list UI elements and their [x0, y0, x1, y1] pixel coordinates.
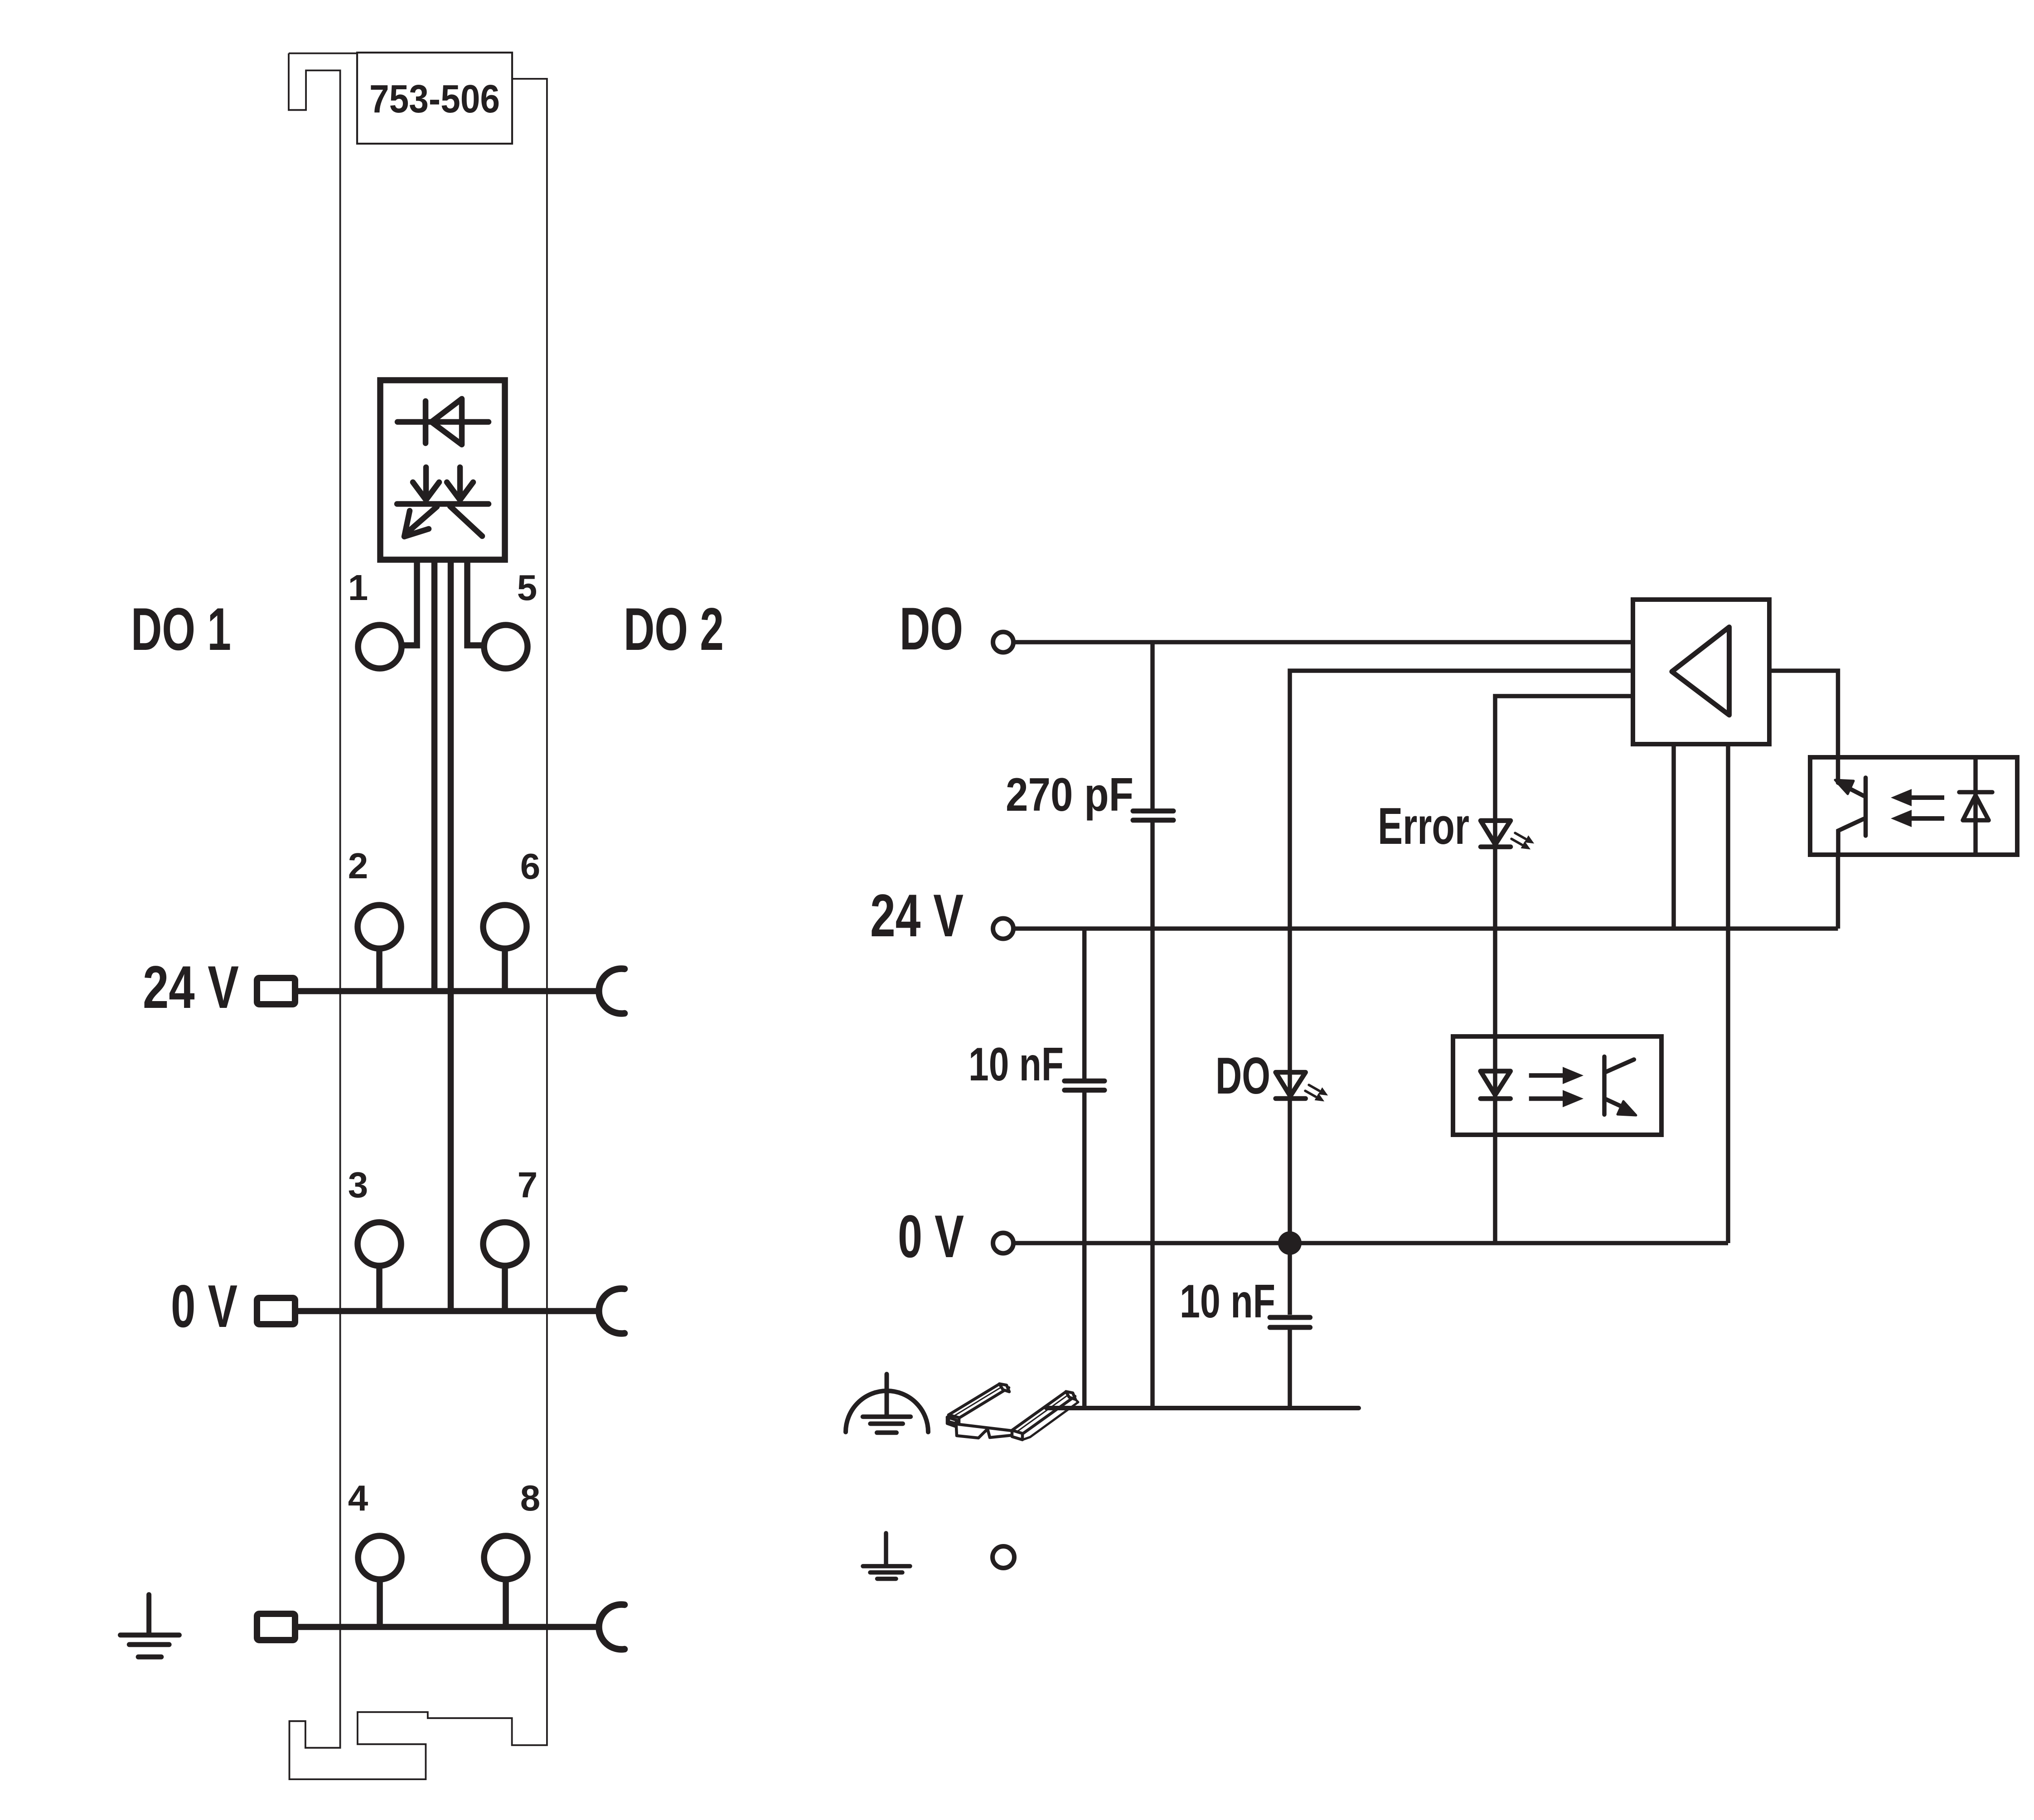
stem terminal 7	[502, 1266, 508, 1311]
terminal circle 6	[483, 905, 527, 949]
terminal circle 1	[358, 625, 402, 668]
stem terminal 8	[503, 1579, 509, 1627]
optocoupler U4 box (middle)	[1453, 1036, 1661, 1135]
rail wire	[1046, 1406, 1359, 1410]
svg-text:DO 1: DO 1	[131, 596, 231, 663]
wire 24V corner up to opto U3 emitter	[1836, 855, 1840, 929]
wire 24V to C2 to rail	[1082, 929, 1087, 1408]
svg-text:753-506: 753-506	[369, 77, 500, 121]
svg-text:5: 5	[517, 567, 538, 608]
wire from box to 0V bus	[448, 560, 454, 1311]
24V terminal	[993, 919, 1013, 939]
wire DO to C1 to rail	[1150, 642, 1155, 1408]
amp bottom wire to 24V	[1671, 744, 1676, 929]
amp bottom wire to 0V	[1726, 744, 1730, 1243]
svg-text:8: 8	[520, 1478, 541, 1518]
svg-text:10 nF: 10 nF	[969, 1038, 1064, 1091]
stem terminal 3	[376, 1266, 383, 1311]
svg-text:DO 2: DO 2	[624, 596, 724, 663]
svg-text:DO: DO	[900, 595, 963, 663]
Error LED emission arrows	[1511, 833, 1533, 849]
opto U4 light arrows (pointing right)	[1529, 1067, 1584, 1107]
amp output wire to optocoupler U3	[1769, 671, 1838, 757]
0V wire	[1014, 1241, 1728, 1245]
svg-text:6: 6	[520, 846, 541, 886]
wire 0V junction to C3 to rail	[1288, 1243, 1292, 1408]
terminal circle 4	[358, 1536, 402, 1579]
DO wire to amplifier	[1014, 640, 1633, 644]
TVS suppressor symbol (two arrows onto bar, crossed legs)	[397, 467, 489, 537]
opto U4 LED (pointing down)	[1481, 1071, 1511, 1099]
suppressor box U1	[380, 380, 505, 560]
earth bus connector square	[257, 1614, 295, 1640]
svg-text:DO: DO	[1216, 1047, 1270, 1105]
DIN rail symbol	[947, 1384, 1078, 1440]
wire amp input 2 with DO LED to 0V	[1290, 671, 1633, 1243]
earth bus continuation arc	[599, 1604, 625, 1649]
unconnected terminal (bottom)	[993, 1546, 1014, 1568]
label box 753-506	[357, 53, 512, 144]
wire from box to terminal 1	[403, 560, 417, 645]
functional earth (chassis) symbol	[846, 1374, 928, 1433]
terminal circle 8	[484, 1536, 528, 1579]
terminal circle 2	[358, 905, 401, 949]
svg-text:270 pF: 270 pF	[1006, 769, 1133, 821]
amplifier U2 box	[1633, 600, 1769, 744]
svg-text:7: 7	[518, 1165, 538, 1205]
terminal circle 5	[484, 625, 528, 668]
earth ground symbol (module)	[121, 1595, 179, 1657]
stem terminal 6	[502, 949, 508, 991]
wire from box to terminal 5	[467, 560, 482, 645]
24V bus continuation arc	[599, 969, 625, 1014]
opto U4 phototransistor	[1604, 1057, 1634, 1115]
svg-text:24 V: 24 V	[870, 882, 964, 949]
opto U3 light arrows (pointing left)	[1891, 789, 1944, 827]
earth ground symbol (bottom)	[863, 1533, 910, 1579]
24V bus wire	[298, 988, 601, 994]
DO terminal	[993, 632, 1013, 653]
diode D1 (top, pointing left)	[397, 399, 489, 445]
svg-text:10 nF: 10 nF	[1180, 1275, 1275, 1328]
svg-text:0 V: 0 V	[171, 1273, 237, 1340]
module 753-506 outline	[289, 53, 547, 1780]
wire from box to 24V bus	[431, 560, 438, 991]
svg-text:Error: Error	[1378, 798, 1469, 855]
svg-text:24 V: 24 V	[143, 954, 239, 1021]
capacitor C1 270 pF	[1133, 811, 1173, 820]
optocoupler U3 box (top right)	[1810, 757, 2017, 855]
0V bus connector square	[257, 1298, 295, 1324]
0V terminal	[993, 1233, 1013, 1254]
capacitor C3 10 nF	[1270, 1317, 1310, 1327]
amplifier triangle	[1672, 627, 1729, 715]
opto U4 emitter arrowhead	[1618, 1101, 1636, 1115]
svg-text:1: 1	[348, 567, 368, 608]
capacitor C2 10 nF	[1065, 1081, 1104, 1090]
0V bus continuation arc	[599, 1289, 625, 1334]
DO LED emission arrows	[1305, 1085, 1327, 1101]
24V bus connector square	[257, 978, 295, 1004]
opto U3 diode (pointing up)	[1959, 757, 1992, 855]
earth bus wire	[298, 1624, 601, 1630]
junction dot 0V node	[1278, 1231, 1302, 1255]
wire amp input 3 with Error LED and opto LED to 0V	[1495, 696, 1633, 1243]
LED D2 DO indicator	[1276, 1072, 1306, 1099]
svg-text:0 V: 0 V	[898, 1203, 964, 1270]
terminal circle 7	[483, 1222, 527, 1266]
opto U3 phototransistor	[1838, 757, 1866, 855]
svg-text:2: 2	[348, 846, 368, 886]
24V wire	[1014, 926, 1838, 931]
stem terminal 4	[377, 1579, 383, 1627]
stem terminal 2	[376, 949, 383, 991]
opto U3 emitter arrowhead	[1835, 780, 1854, 794]
terminal circle 3	[358, 1222, 401, 1266]
0V bus wire	[298, 1308, 601, 1314]
svg-text:3: 3	[348, 1165, 368, 1205]
svg-text:4: 4	[348, 1478, 368, 1518]
LED D3 Error indicator	[1481, 821, 1511, 847]
